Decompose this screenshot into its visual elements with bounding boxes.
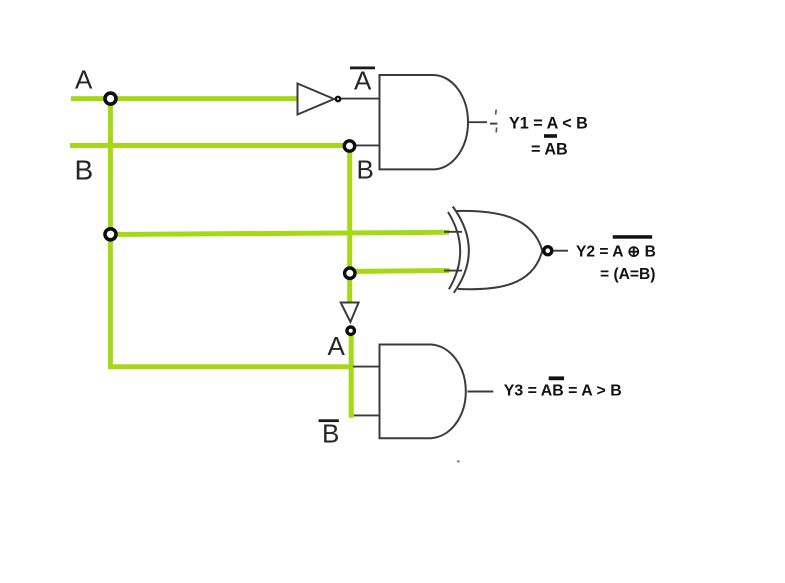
svg-text:B: B — [75, 155, 94, 186]
svg-text:Y3 = AB = A > B: Y3 = AB = A > B — [504, 383, 622, 400]
svg-text:Y2 = A ⊕ B: Y2 = A ⊕ B — [576, 244, 656, 261]
svg-text:A: A — [328, 331, 346, 361]
svg-text:= AB: = AB — [531, 140, 568, 158]
svg-text:B: B — [322, 419, 339, 449]
svg-text:A: A — [75, 64, 93, 94]
svg-text:B: B — [357, 154, 374, 184]
svg-text:Y1 = A < B: Y1 = A < B — [509, 115, 588, 133]
svg-text:= (A=B): = (A=B) — [600, 266, 655, 283]
svg-text:A: A — [354, 65, 372, 95]
